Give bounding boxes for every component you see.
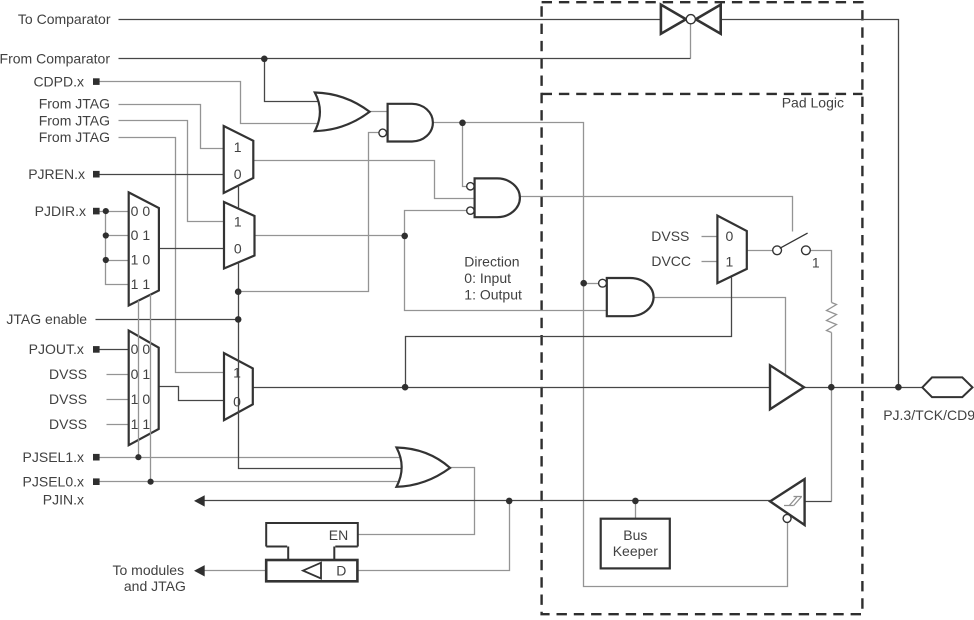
svg-text:PJ.3/TCK/CD9: PJ.3/TCK/CD9 — [883, 407, 974, 423]
svg-text:0: 0 — [726, 228, 734, 244]
svg-text:0: 0 — [233, 394, 241, 410]
svg-text:1 0: 1 0 — [131, 391, 151, 407]
svg-text:PJSEL0.x: PJSEL0.x — [23, 473, 84, 489]
svg-text:To Comparator: To Comparator — [18, 11, 111, 27]
svg-text:and JTAG: and JTAG — [124, 578, 186, 594]
svg-text:D: D — [336, 563, 346, 579]
svg-text:DVSS: DVSS — [651, 228, 689, 244]
svg-text:0 0: 0 0 — [131, 341, 151, 357]
svg-text:PJDIR.x: PJDIR.x — [35, 203, 86, 219]
svg-text:PJOUT.x: PJOUT.x — [29, 341, 84, 357]
svg-text:From JTAG: From JTAG — [39, 113, 110, 129]
svg-text:0 1: 0 1 — [131, 366, 151, 382]
svg-text:0: 0 — [234, 241, 242, 257]
svg-text:DVSS: DVSS — [49, 366, 87, 382]
svg-text:1: 1 — [233, 365, 241, 381]
svg-text:1: 1 — [234, 214, 242, 230]
svg-text:DVSS: DVSS — [49, 416, 87, 432]
svg-text:PJREN.x: PJREN.x — [28, 166, 85, 182]
svg-text:1: Output: 1: Output — [464, 287, 522, 303]
svg-text:To modules: To modules — [113, 562, 185, 578]
svg-text:1: 1 — [812, 254, 820, 270]
svg-text:EN: EN — [329, 527, 348, 543]
svg-text:Direction: Direction — [464, 254, 519, 270]
svg-text:0 0: 0 0 — [131, 203, 151, 219]
svg-text:Pad Logic: Pad Logic — [782, 95, 844, 111]
svg-text:Keeper: Keeper — [613, 543, 658, 559]
svg-text:0: 0 — [234, 166, 242, 182]
svg-text:1 1: 1 1 — [131, 416, 151, 432]
svg-text:CDPD.x: CDPD.x — [33, 73, 84, 89]
svg-text:Bus: Bus — [623, 527, 647, 543]
svg-text:0: Input: 0: Input — [464, 270, 511, 286]
svg-text:1: 1 — [726, 253, 734, 269]
svg-text:1 0: 1 0 — [131, 252, 151, 268]
svg-text:PJIN.x: PJIN.x — [43, 492, 84, 508]
svg-text:1: 1 — [234, 139, 242, 155]
svg-text:From Comparator: From Comparator — [0, 51, 110, 67]
svg-text:DVCC: DVCC — [651, 253, 691, 269]
svg-text:DVSS: DVSS — [49, 391, 87, 407]
svg-text:From JTAG: From JTAG — [39, 129, 110, 145]
svg-text:JTAG enable: JTAG enable — [6, 311, 87, 327]
svg-text:PJSEL1.x: PJSEL1.x — [23, 449, 84, 465]
svg-text:From JTAG: From JTAG — [39, 96, 110, 112]
svg-text:0 1: 0 1 — [131, 227, 151, 243]
svg-text:1 1: 1 1 — [131, 276, 151, 292]
